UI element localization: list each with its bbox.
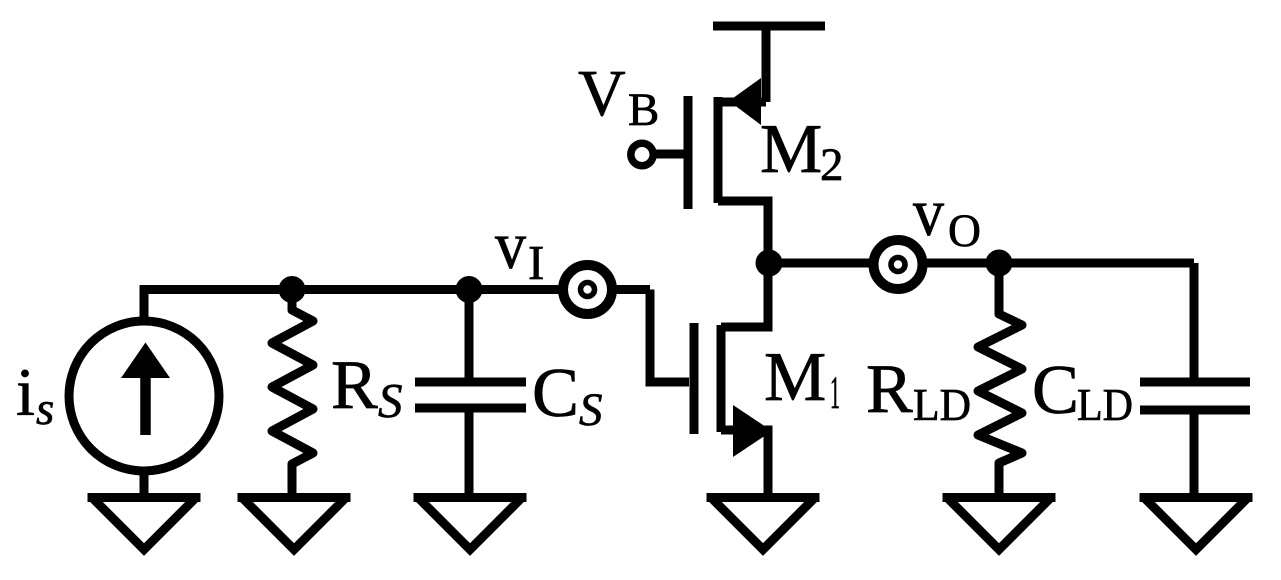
port v_I [563,265,612,314]
ground (M1 source) [707,493,820,502]
svg-text:C: C [1032,352,1079,429]
current source is [69,321,219,471]
node dot output junction [986,250,1013,277]
svg-text:v: v [495,207,526,283]
svg-text:M: M [760,111,822,188]
port v_O [874,240,923,289]
ground (C_LD) [1140,493,1253,502]
svg-text:2: 2 [820,139,844,191]
svg-text:S: S [378,373,403,428]
VDD rail [713,22,825,31]
wire M2 source to VDD [762,22,771,102]
ground (current source) [88,493,201,502]
svg-text:LD: LD [1077,380,1133,430]
transistor M1 (NMOS) [690,323,699,434]
resistor R_LD [978,263,1022,498]
capacitor C_S [465,290,474,378]
svg-text:R: R [331,347,378,424]
wire M1 gate lead [650,290,689,383]
svg-text:O: O [948,205,981,257]
wire input node [144,290,650,323]
transistor M2 (PMOS) [718,98,766,107]
svg-text:i: i [16,354,35,430]
svg-text:B: B [628,84,659,136]
svg-text:LD: LD [913,380,971,430]
node dot M1/M2 drain [756,250,783,277]
ground (R_S) [238,493,351,502]
svg-text:R: R [866,351,913,428]
wire C_LD top lead [1190,263,1199,378]
node dot CS junction [456,276,483,303]
svg-text:C: C [532,355,579,432]
node dot RS junction [279,276,306,303]
svg-text:s: s [36,383,54,435]
svg-text:V: V [578,57,626,130]
ground (C_S) [414,493,527,502]
ground (R_LD) [943,493,1056,502]
resistor R_S [272,290,313,498]
wire output node [769,259,1194,268]
svg-text:M: M [764,339,826,416]
capacitor C_LD [1140,378,1250,387]
svg-text:I: I [528,235,544,290]
svg-text:v: v [913,174,944,250]
svg-text:1: 1 [830,367,840,419]
svg-text:S: S [579,384,603,436]
